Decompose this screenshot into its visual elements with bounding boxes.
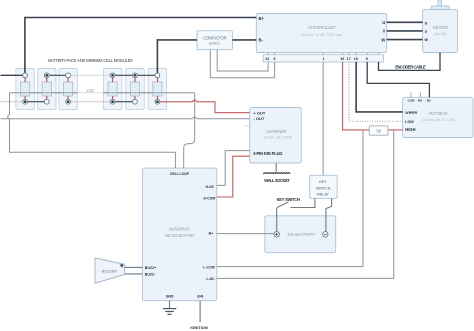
svg-text:GND: GND [166,294,174,298]
svg-text:IGN: IGN [197,294,204,298]
svg-text:B+: B+ [209,231,214,235]
svg-text:KEY SWITCH: KEY SWITCH [277,197,300,202]
svg-text:HIGH: HIGH [405,127,415,132]
svg-text:WALL SOCKET: WALL SOCKET [264,178,290,183]
svg-text:3-PIN DIN PLUG: 3-PIN DIN PLUG [253,151,283,156]
svg-text:B+: B+ [259,16,265,21]
svg-text:x32: x32 [85,88,94,94]
svg-text:U: U [382,20,385,25]
svg-text:SWITCH: SWITCH [316,186,331,190]
svg-text:1: 1 [323,57,325,61]
svg-text:CELL LOOP: CELL LOOP [170,172,190,176]
svg-text:BUZZ+: BUZZ+ [145,266,156,270]
svg-text:13: 13 [265,57,269,61]
svg-text:BUZZER: BUZZER [102,269,117,273]
svg-text:ENCODER CABLE: ENCODER CABLE [395,64,426,69]
svg-text:CHARGER: CHARGER [266,129,287,135]
svg-text:NO: NO [418,99,423,103]
svg-text:9: 9 [366,57,368,61]
svg-text:BUZZ-: BUZZ- [145,273,156,277]
svg-text:LOW: LOW [405,120,414,124]
svg-text:MINIBMS: MINIBMS [169,226,190,232]
svg-text:17: 17 [347,57,351,61]
svg-text:KEY: KEY [319,180,327,184]
svg-text:CONTACTOR: CONTACTOR [203,36,226,41]
svg-text:IGNITION: IGNITION [190,325,208,330]
svg-text:(ac-35): (ac-35) [434,32,446,36]
svg-text:+ OUT: + OUT [253,110,265,115]
svg-text:16: 16 [340,57,344,61]
svg-text:MOTOR: MOTOR [433,25,449,31]
svg-text:(main): (main) [209,42,220,46]
svg-text:L-COM: L-COM [203,265,215,269]
svg-text:RELAY: RELAY [317,192,329,196]
svg-text:V: V [383,29,386,34]
svg-text:(curtis pb-8 0-5k): (curtis pb-8 0-5k) [422,118,455,122]
svg-text:(elcon pfc 2500): (elcon pfc 2500) [264,136,292,140]
svg-text:COM: COM [408,99,415,103]
svg-text:CONTROLLER: CONTROLLER [308,25,336,31]
svg-text:POT BOX: POT BOX [429,111,449,117]
svg-text:15: 15 [354,57,358,61]
svg-text:H-NC: H-NC [205,185,214,189]
svg-text:6: 6 [273,57,275,61]
svg-text:12v BATTERY: 12v BATTERY [287,232,317,238]
svg-text:W: W [381,37,385,42]
svg-text:WIPER: WIPER [405,111,417,115]
svg-text:H-COM: H-COM [203,197,215,201]
svg-text:L-NC: L-NC [206,277,215,281]
svg-text:HEAD BOARD: HEAD BOARD [165,233,195,239]
svg-text:B-: B- [259,37,264,42]
svg-text:(curtis 1238-7501 ac): (curtis 1238-7501 ac) [302,33,343,37]
svg-text:BATTERY PACK AND MINIBMS CELL: BATTERY PACK AND MINIBMS CELL MODULES [48,58,133,63]
svg-text:- OUT: - OUT [253,116,264,121]
